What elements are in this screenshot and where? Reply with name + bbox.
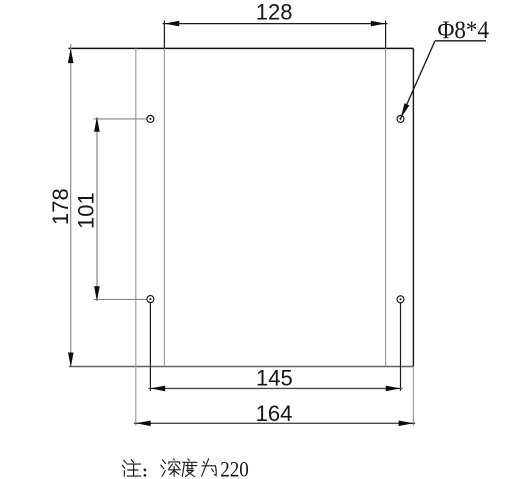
svg-text:220: 220 [220,456,249,479]
svg-text:128: 128 [256,0,293,25]
svg-text:Φ8*4: Φ8*4 [438,17,490,44]
svg-text:145: 145 [256,366,293,391]
svg-text:178: 178 [48,188,73,225]
svg-text:164: 164 [256,401,293,426]
svg-text:101: 101 [74,192,99,229]
